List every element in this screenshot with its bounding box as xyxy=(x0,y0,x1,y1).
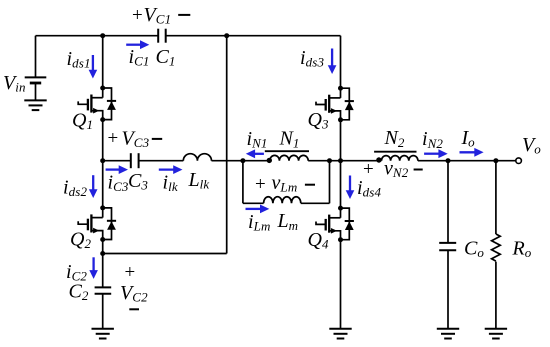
svg-text:Q1: Q1 xyxy=(72,110,93,133)
svg-text:+: + xyxy=(132,5,143,26)
wire C2 to ground xyxy=(102,294,104,329)
ground Vin xyxy=(24,100,46,110)
capacitor C2 xyxy=(95,287,112,293)
node Ro branch xyxy=(493,158,498,163)
svg-text:VC3: VC3 xyxy=(122,128,150,151)
wire Ro branch upper xyxy=(495,161,497,234)
wire link vertical riser to top wire xyxy=(226,36,228,254)
current arrow i_C3 xyxy=(106,165,128,174)
svg-text:VC1: VC1 xyxy=(144,4,172,27)
wire N2 to output terminal xyxy=(418,160,516,162)
wire Q1 source to middle node xyxy=(102,120,104,161)
ground Ro xyxy=(485,329,507,339)
transistor Q4 xyxy=(316,206,354,243)
N1 polarity dot xyxy=(267,158,272,163)
current arrow I_o xyxy=(460,148,484,157)
current arrow i_N1 (points left) xyxy=(246,149,264,158)
current arrow i_ds1 xyxy=(89,55,98,79)
svg-text:C1: C1 xyxy=(156,46,176,69)
svg-text:+: + xyxy=(363,159,374,180)
svg-text:Io: Io xyxy=(461,127,476,150)
wire link horizontal to right riser xyxy=(103,253,227,255)
node Lm branch right xyxy=(327,158,332,163)
svg-text:ilk: ilk xyxy=(163,172,178,195)
svg-text:iC3: iC3 xyxy=(108,172,129,195)
node Lm branch left xyxy=(240,158,245,163)
svg-text:+: + xyxy=(108,128,119,149)
node top wire / left branch xyxy=(100,33,105,38)
label +VC1- xyxy=(132,4,190,27)
wire N1 to right branch xyxy=(308,160,340,162)
svg-text:Q4: Q4 xyxy=(308,229,329,252)
svg-text:Llk: Llk xyxy=(188,169,210,192)
node top wire / C2-link branch xyxy=(224,33,229,38)
transistor Q1 xyxy=(78,86,116,123)
wire Q4 source to ground xyxy=(340,240,342,329)
svg-text:iN2: iN2 xyxy=(422,128,443,151)
wire Q2 source down to C2 xyxy=(102,240,104,288)
N2 polarity dot xyxy=(376,157,381,162)
transistor Q2 xyxy=(78,205,116,242)
label +vN2- xyxy=(363,158,423,181)
label +VC2- vertical xyxy=(120,262,148,309)
node middle wire / Q3Q4 branch xyxy=(338,158,343,163)
svg-text:ids2: ids2 xyxy=(63,177,88,200)
wire left branch top (to Q1 drain) xyxy=(102,36,104,88)
inductor Lm xyxy=(264,197,301,204)
svg-text:iLm: iLm xyxy=(248,211,271,234)
N1 core bar xyxy=(265,150,309,152)
svg-text:VC2: VC2 xyxy=(120,282,148,305)
terminal Vo open circle xyxy=(516,158,522,164)
wire top horizontal right of C1 xyxy=(166,35,341,37)
svg-text:Vo: Vo xyxy=(522,134,541,157)
source Vin battery xyxy=(25,77,47,100)
svg-text:N1: N1 xyxy=(279,128,300,151)
capacitor C3 xyxy=(131,153,139,168)
wire middle node to Q2 drain xyxy=(102,161,104,208)
transformer primary N1 winding xyxy=(270,155,308,160)
ground Q4 branch xyxy=(329,329,351,339)
inductor Llk xyxy=(183,154,211,161)
svg-text:N2: N2 xyxy=(384,127,405,150)
wire middle to N2 winding xyxy=(341,160,382,162)
wire middle wire to Q4 drain xyxy=(340,161,342,208)
wire Co branch lower xyxy=(447,250,449,328)
wire top horizontal left of C1 xyxy=(36,35,159,37)
capacitor Co xyxy=(439,243,456,250)
wire Lm loop right vertical xyxy=(329,161,331,204)
current arrow i_ds4 xyxy=(346,176,355,200)
wire Lm loop bottom left xyxy=(243,202,264,204)
transformer secondary N2 winding xyxy=(382,156,418,161)
svg-text:C3: C3 xyxy=(128,170,148,193)
svg-text:vLm: vLm xyxy=(272,172,298,195)
N2 core bar xyxy=(374,151,416,153)
capacitor C1 xyxy=(158,29,166,43)
svg-text:ids4: ids4 xyxy=(357,177,382,200)
wire Vin branch vertical xyxy=(35,36,37,78)
current arrow i_C1 xyxy=(126,40,149,49)
wire C3 to Llk xyxy=(139,160,184,162)
svg-text:+: + xyxy=(125,262,136,283)
wire Lm loop left vertical xyxy=(242,161,244,204)
resistor Ro xyxy=(492,234,501,261)
svg-text:iN1: iN1 xyxy=(247,128,268,151)
wire Lm loop bottom right xyxy=(301,202,330,204)
wire Llk to N1 node xyxy=(212,160,243,162)
svg-text:C2: C2 xyxy=(69,280,89,303)
svg-text:Q3: Q3 xyxy=(308,109,329,132)
svg-text:Vin: Vin xyxy=(3,72,26,95)
svg-text:vN2: vN2 xyxy=(384,158,409,181)
wire Q3 source to middle wire xyxy=(340,120,342,161)
wire right branch top (top wire to Q3) xyxy=(340,36,342,88)
svg-text:ids1: ids1 xyxy=(67,48,91,71)
svg-text:Lm: Lm xyxy=(277,210,299,233)
current arrow i_Lm xyxy=(246,205,270,214)
transistor Q3 xyxy=(316,86,354,123)
wire middle left of C3 xyxy=(103,160,131,162)
ground C2 xyxy=(92,329,114,339)
svg-text:Q2: Q2 xyxy=(70,228,91,251)
node middle wire / left branch xyxy=(100,158,105,163)
current arrow i_N2 xyxy=(424,149,448,158)
svg-text:+: + xyxy=(255,174,266,195)
wire Ro branch lower xyxy=(495,262,497,329)
svg-text:Co: Co xyxy=(464,237,484,260)
current arrow i_lk xyxy=(159,165,183,174)
current arrow i_ds3 xyxy=(328,49,337,75)
svg-text:Ro: Ro xyxy=(512,237,532,260)
wire node to N1 winding xyxy=(243,160,270,162)
node link junction above C2 xyxy=(100,251,105,256)
label +VC3- xyxy=(108,128,163,151)
svg-text:iC1: iC1 xyxy=(129,46,150,69)
node Co branch xyxy=(446,158,451,163)
current arrow i_C2 xyxy=(89,257,98,279)
current arrow i_ds2 xyxy=(89,175,98,198)
label +vLm- xyxy=(255,172,315,195)
svg-text:ids3: ids3 xyxy=(300,47,325,70)
ground Co xyxy=(437,329,459,339)
wire Co branch upper xyxy=(447,161,449,243)
